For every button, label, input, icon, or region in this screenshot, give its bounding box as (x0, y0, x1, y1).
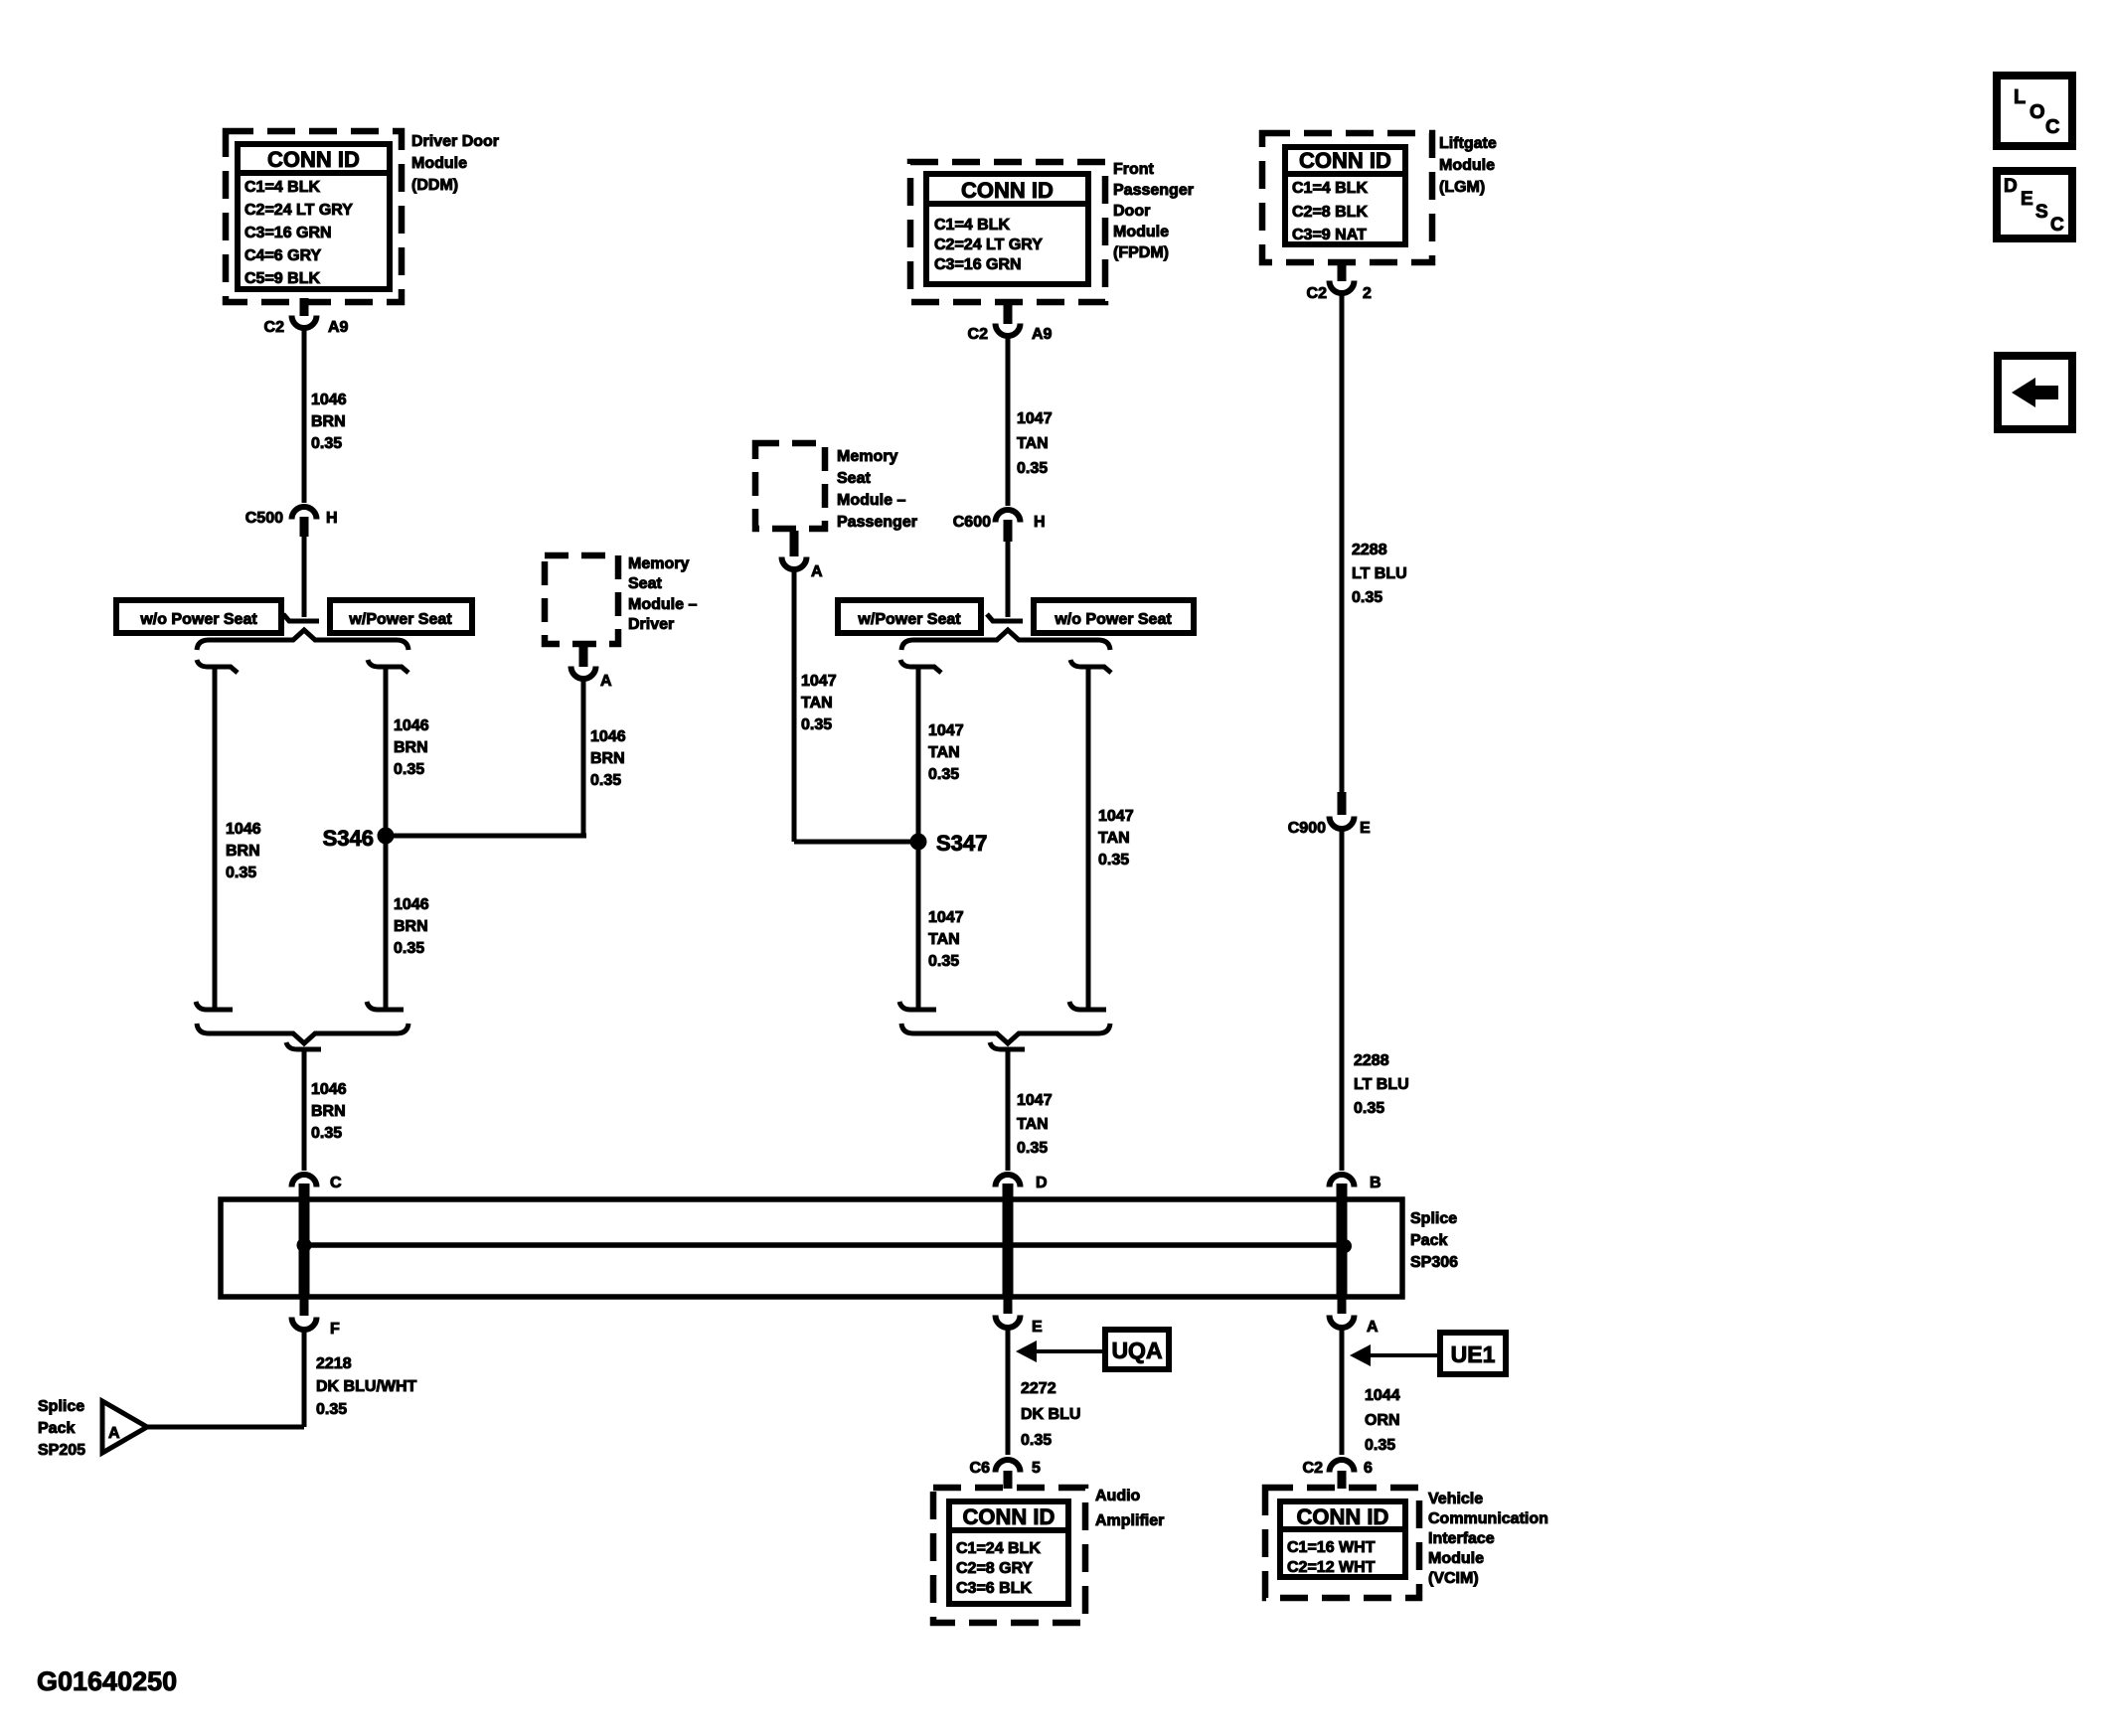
SP306 leg D-E (through box) (1003, 1184, 1014, 1297)
svg-text:BRN: BRN (590, 750, 625, 767)
module LGM: Liftgate Module dashed box with CONN ID table (1262, 133, 1432, 262)
svg-text:C: C (330, 1175, 342, 1191)
svg-text:Front: Front (1113, 161, 1155, 178)
svg-text:Splice: Splice (1410, 1210, 1457, 1227)
svg-text:Driver Door: Driver Door (411, 133, 499, 150)
label: 1047 TAN 0.35 (middle-left branch) (928, 722, 964, 783)
svg-text:BRN: BRN (394, 739, 428, 756)
label: wire 2272 DK BLU 0.35 (1021, 1380, 1080, 1449)
SP306 leg C-F (through box) (299, 1184, 310, 1297)
wire 1046 BRN 0.35 to splice pack C (302, 1049, 307, 1171)
label: wire 2218 DK BLU/WHT 0.35 (316, 1355, 417, 1418)
svg-text:S347: S347 (936, 831, 987, 856)
svg-text:0.35: 0.35 (1365, 1437, 1395, 1454)
svg-text:G01640250: G01640250 (37, 1666, 177, 1696)
svg-text:(VCIM): (VCIM) (1428, 1570, 1479, 1587)
branch w/o power seat: bracket + wire (left) (196, 660, 238, 1010)
svg-text:0.35: 0.35 (394, 940, 424, 957)
connector C6 pin 5 at audio amplifier (970, 1460, 1041, 1489)
svg-text:Seat: Seat (837, 470, 871, 487)
label: Audio Amplifier (1095, 1488, 1164, 1529)
svg-text:C1=4 BLK: C1=4 BLK (244, 179, 320, 196)
connector cavity F of SP306 (292, 1297, 341, 1338)
svg-text:w/o Power Seat: w/o Power Seat (139, 611, 257, 628)
label: 1046 BRN 0.35 (right branch, above S346) (394, 717, 429, 778)
svg-text:Communication: Communication (1428, 1510, 1548, 1527)
svg-text:BRN: BRN (394, 918, 428, 935)
svg-text:Module: Module (1439, 157, 1495, 174)
svg-text:LT BLU: LT BLU (1352, 565, 1407, 582)
svg-text:C2=12 WHT: C2=12 WHT (1287, 1559, 1376, 1576)
svg-text:1046: 1046 (311, 392, 347, 408)
svg-text:0.35: 0.35 (1352, 589, 1382, 606)
svg-text:H: H (1034, 514, 1046, 531)
svg-text:ORN: ORN (1365, 1412, 1400, 1429)
svg-text:0.35: 0.35 (590, 772, 621, 789)
svg-text:C2: C2 (264, 319, 285, 336)
label: 1046 BRN 0.35 (left branch) (226, 821, 261, 881)
wire from C600 to option split (middle) (1006, 542, 1011, 617)
connector C500 pin H (245, 507, 338, 537)
svg-text:1047: 1047 (928, 722, 964, 739)
svg-text:D: D (2004, 176, 2018, 197)
wire 2288 LT BLU 0.35 from LGM to C900 (1340, 294, 1345, 792)
svg-text:TAN: TAN (928, 931, 960, 948)
hook under brace (middle) (990, 1042, 1025, 1049)
wire 2288 LT BLU 0.35 from C900 to splice pack B (1340, 830, 1345, 1171)
svg-text:E: E (1032, 1319, 1043, 1336)
svg-text:TAN: TAN (1017, 1116, 1049, 1133)
splice pack SP205 triangle terminal A (102, 1401, 147, 1453)
svg-text:TAN: TAN (928, 744, 960, 761)
module: Memory Seat Module - Passenger (dashed) (755, 443, 825, 529)
svg-text:SP205: SP205 (38, 1442, 85, 1459)
svg-text:A: A (108, 1425, 120, 1442)
svg-text:C500: C500 (245, 510, 283, 527)
svg-text:1044: 1044 (1365, 1387, 1400, 1404)
option split hook (283, 614, 319, 621)
label: wire 1044 ORN 0.35 (1365, 1387, 1400, 1454)
wire 1047 TAN 0.35 from memory module A down to S347 (792, 570, 797, 842)
svg-text:DK BLU: DK BLU (1021, 1406, 1080, 1423)
connector A of memory seat module passenger (782, 531, 824, 580)
splice S346 (323, 826, 395, 851)
module: Audio Amplifier dashed box with CONN ID table (933, 1488, 1085, 1623)
svg-text:A9: A9 (1032, 326, 1053, 343)
svg-text:C3=16 GRN: C3=16 GRN (934, 256, 1022, 273)
svg-text:Module –: Module – (837, 492, 905, 509)
svg-text:H: H (326, 510, 338, 527)
svg-text:2272: 2272 (1021, 1380, 1056, 1397)
svg-text:A: A (1367, 1319, 1379, 1336)
svg-text:B: B (1370, 1175, 1381, 1191)
svg-text:C900: C900 (1288, 820, 1326, 837)
svg-text:E: E (1360, 820, 1371, 837)
legend box LOC (1997, 76, 2072, 146)
legend box DESC (1997, 171, 2072, 238)
svg-text:BRN: BRN (226, 843, 260, 860)
svg-text:0.35: 0.35 (1017, 460, 1048, 477)
svg-text:A9: A9 (328, 319, 349, 336)
junction dot at C leg (297, 1238, 312, 1253)
svg-text:C2: C2 (968, 326, 989, 343)
svg-text:C4=6 GRY: C4=6 GRY (244, 247, 322, 264)
label: wire 2288 LT BLU 0.35 (upper) (1352, 542, 1407, 606)
svg-text:1047: 1047 (801, 673, 837, 690)
RPO arrow UQA pointing at wire (1016, 1341, 1105, 1362)
svg-text:C2: C2 (1307, 285, 1328, 302)
label: wire 2288 LT BLU 0.35 (lower) (1354, 1052, 1409, 1117)
svg-text:1047: 1047 (1017, 1092, 1053, 1109)
svg-text:Liftgate: Liftgate (1439, 135, 1497, 152)
svg-text:w/o Power Seat: w/o Power Seat (1054, 611, 1172, 628)
brace joining branches back (left column bottom) (197, 1024, 408, 1043)
label: 1047 TAN 0.35 (to splice pack) (1017, 1092, 1053, 1157)
svg-text:Splice: Splice (38, 1398, 84, 1415)
svg-text:1046: 1046 (226, 821, 261, 838)
svg-text:D: D (1036, 1175, 1048, 1191)
svg-text:0.35: 0.35 (928, 766, 959, 783)
wire 1047 TAN 0.35 from FPDM to C600 (1006, 337, 1011, 506)
label: 1046 BRN 0.35 (to splice pack) (311, 1081, 347, 1142)
SP306 leg B-A (through box) (1337, 1184, 1348, 1297)
connector A of memory seat module driver (571, 646, 613, 690)
svg-text:2288: 2288 (1354, 1052, 1389, 1069)
connector C2 pin A9 at DDM (264, 298, 349, 336)
svg-text:Module –: Module – (628, 596, 697, 613)
svg-text:C6: C6 (970, 1460, 991, 1477)
label: wire 1046 BRN 0.35 (311, 392, 347, 452)
connector C600 pin H (953, 510, 1046, 542)
svg-text:0.35: 0.35 (311, 435, 342, 452)
label: Splice Pack SP306 (1410, 1210, 1458, 1271)
brace splitting wire into two branches (left column) (197, 630, 408, 650)
svg-text:UQA: UQA (1111, 1338, 1162, 1363)
svg-text:1046: 1046 (394, 717, 429, 734)
svg-text:2: 2 (1363, 285, 1372, 302)
svg-text:TAN: TAN (1017, 435, 1049, 452)
label: 1047 TAN 0.35 (middle-right branch) (1098, 808, 1134, 868)
label: Liftgate Module (LGM) (1439, 135, 1497, 196)
label: 1046 BRN 0.35 (below S346) (394, 896, 429, 957)
svg-text:C2: C2 (1303, 1460, 1324, 1477)
svg-text:Passenger: Passenger (837, 514, 917, 531)
connector cavity C of SP306 (292, 1175, 343, 1191)
label: Vehicle Communication Interface Module (VCIM) (1428, 1491, 1548, 1587)
svg-text:CONN ID: CONN ID (961, 178, 1054, 203)
svg-text:Driver: Driver (628, 616, 674, 633)
svg-text:A: A (811, 563, 823, 580)
svg-text:Module: Module (1113, 224, 1169, 240)
svg-text:6: 6 (1364, 1460, 1373, 1477)
svg-text:(FPDM): (FPDM) (1113, 244, 1169, 261)
module DDM: Driver Door Module dashed box with CONN ID table (226, 131, 402, 302)
svg-text:CONN ID: CONN ID (267, 147, 360, 172)
svg-text:Amplifier: Amplifier (1095, 1512, 1164, 1529)
svg-text:0.35: 0.35 (1354, 1100, 1384, 1117)
svg-text:2288: 2288 (1352, 542, 1387, 558)
label: Memory Seat Module - Driver (628, 555, 697, 633)
wire 1046 BRN 0.35 from memory module A down to S346 (581, 680, 586, 836)
svg-text:0.35: 0.35 (226, 865, 256, 881)
svg-text:SP306: SP306 (1410, 1254, 1458, 1271)
splice pack SP306 box (221, 1199, 1402, 1297)
svg-text:0.35: 0.35 (394, 761, 424, 778)
svg-text:C3=9 NAT: C3=9 NAT (1292, 227, 1367, 243)
svg-text:0.35: 0.35 (801, 716, 832, 733)
RPO arrow UE1 pointing at wire (1350, 1344, 1440, 1366)
svg-text:0.35: 0.35 (928, 953, 959, 970)
svg-text:Interface: Interface (1428, 1530, 1495, 1547)
label: Memory Seat Module - Passenger (837, 448, 917, 531)
svg-text:C5=9 BLK: C5=9 BLK (244, 270, 320, 287)
svg-text:BRN: BRN (311, 413, 346, 430)
svg-text:UE1: UE1 (1451, 1341, 1496, 1367)
svg-text:CONN ID: CONN ID (1299, 148, 1391, 173)
label: wire 1047 TAN 0.35 (1017, 410, 1053, 477)
svg-text:5: 5 (1032, 1460, 1041, 1477)
svg-text:1046: 1046 (311, 1081, 347, 1098)
svg-text:C3=6 BLK: C3=6 BLK (956, 1580, 1032, 1597)
svg-text:2218: 2218 (316, 1355, 352, 1372)
option box: w/o Power Seat (middle column) (1034, 600, 1194, 633)
svg-text:w/Power Seat: w/Power Seat (857, 611, 961, 628)
svg-text:1046: 1046 (590, 728, 626, 745)
branch w/o power seat: bracket + wire (middle-right) (1069, 660, 1111, 1010)
option box: w/o Power Seat (left column) (116, 600, 281, 633)
svg-text:CONN ID: CONN ID (1297, 1504, 1389, 1529)
svg-text:(DDM): (DDM) (411, 177, 458, 194)
connector cavity B of SP306 (1330, 1175, 1381, 1191)
label: 1047 TAN 0.35 (memory module wire) (801, 673, 837, 733)
connector C2 pin 6 at VCIM (1303, 1460, 1373, 1489)
svg-text:Seat: Seat (628, 575, 662, 592)
option split hook (middle) (987, 614, 1023, 621)
svg-text:Pack: Pack (1410, 1232, 1447, 1249)
svg-text:C3=16 GRN: C3=16 GRN (244, 225, 332, 241)
svg-text:1046: 1046 (394, 896, 429, 913)
brace splitting wire into two branches (middle column) (901, 630, 1110, 650)
module FPDM: Front Passenger Door Module dashed box with CONN ID table (910, 162, 1105, 302)
svg-text:TAN: TAN (1098, 830, 1130, 847)
label: Driver Door Module (DDM) (411, 133, 499, 194)
label: Front Passenger Door Module (FPDM) (1113, 161, 1194, 261)
wire 1044 ORN 0.35 from A to VCIM (1340, 1329, 1345, 1455)
svg-text:Module: Module (1428, 1550, 1484, 1567)
connector C900 pin E (1288, 792, 1371, 837)
svg-text:S346: S346 (323, 826, 374, 851)
svg-text:0.35: 0.35 (311, 1125, 342, 1142)
svg-text:O: O (2030, 101, 2045, 123)
svg-text:0.35: 0.35 (1021, 1432, 1052, 1449)
junction dot at B leg (1338, 1239, 1352, 1253)
svg-text:CONN ID: CONN ID (963, 1504, 1055, 1529)
svg-text:C: C (2050, 215, 2064, 236)
label: 1047 TAN 0.35 (below S347) (928, 909, 964, 970)
svg-text:C: C (2045, 116, 2059, 138)
svg-text:Pack: Pack (38, 1420, 75, 1437)
branch w/ power seat: bracket + wire (right) (367, 660, 408, 1010)
svg-text:0.35: 0.35 (1098, 852, 1129, 868)
label: Splice Pack SP205 (38, 1398, 85, 1459)
svg-text:A: A (600, 673, 612, 690)
RPO box UE1 (1440, 1333, 1506, 1374)
svg-text:1047: 1047 (1098, 808, 1134, 825)
svg-text:L: L (2014, 86, 2026, 108)
svg-text:Module: Module (411, 155, 467, 172)
connector C2 pin A9 at FPDM (968, 304, 1053, 343)
wire 2218 DK BLU/WHT 0.35 from F to SP205 (302, 1331, 307, 1427)
svg-text:E: E (2021, 189, 2033, 210)
svg-text:C2=8 BLK: C2=8 BLK (1292, 204, 1368, 221)
svg-text:1047: 1047 (1017, 410, 1053, 427)
wire 1047 TAN 0.35 to splice pack D (1006, 1049, 1011, 1171)
svg-text:TAN: TAN (801, 695, 833, 711)
splice S347 (910, 831, 988, 856)
branch w/ power seat: bracket + wire (middle-left) (899, 660, 941, 1010)
svg-text:1047: 1047 (928, 909, 964, 926)
svg-text:C2=24 LT GRY: C2=24 LT GRY (244, 202, 353, 219)
option box: w/Power Seat (left column) (330, 600, 472, 633)
RPO box UQA (1105, 1330, 1169, 1369)
svg-text:w/Power Seat: w/Power Seat (348, 611, 452, 628)
module: Memory Seat Module - Driver (dashed) (545, 555, 618, 644)
module VCIM dashed box with CONN ID table (1265, 1488, 1419, 1598)
connector cavity A of SP306 (1330, 1297, 1380, 1336)
SP306 internal bus bar (304, 1242, 1345, 1248)
svg-text:DK BLU/WHT: DK BLU/WHT (316, 1378, 417, 1395)
svg-text:C2=8 GRY: C2=8 GRY (956, 1560, 1034, 1577)
wire from C500 to option split (302, 537, 307, 617)
svg-text:BRN: BRN (311, 1103, 346, 1120)
svg-text:Passenger: Passenger (1113, 182, 1194, 199)
svg-text:C1=4 BLK: C1=4 BLK (934, 217, 1010, 234)
wire 2272 DK BLU 0.35 from E to audio amplifier (1006, 1329, 1011, 1455)
svg-text:Memory: Memory (837, 448, 897, 465)
svg-text:C1=16 WHT: C1=16 WHT (1287, 1539, 1376, 1556)
svg-text:Vehicle: Vehicle (1428, 1491, 1483, 1507)
svg-text:F: F (330, 1321, 340, 1338)
svg-text:S: S (2035, 202, 2048, 223)
svg-text:Door: Door (1113, 203, 1150, 220)
svg-text:C600: C600 (953, 514, 991, 531)
connector cavity D of SP306 (996, 1175, 1048, 1191)
connector cavity E of SP306 (996, 1297, 1044, 1336)
label: 1046 BRN 0.35 (memory module wire) (590, 728, 626, 789)
svg-text:Audio: Audio (1095, 1488, 1141, 1504)
svg-text:0.35: 0.35 (316, 1401, 347, 1418)
svg-text:(LGM): (LGM) (1439, 179, 1485, 196)
option box: w/Power Seat (middle column) (838, 600, 981, 633)
svg-text:C1=4 BLK: C1=4 BLK (1292, 180, 1368, 197)
hook under brace (286, 1042, 321, 1049)
connector C2 pin 2 at LGM (1307, 264, 1372, 302)
svg-text:C1=24 BLK: C1=24 BLK (956, 1540, 1041, 1557)
wire 1046 BRN 0.35 from DDM to C500 (302, 329, 307, 503)
svg-text:LT BLU: LT BLU (1354, 1076, 1409, 1093)
legend box back-arrow (1998, 356, 2072, 429)
svg-text:Memory: Memory (628, 555, 689, 572)
svg-text:C2=24 LT GRY: C2=24 LT GRY (934, 237, 1043, 253)
brace joining branches back (middle column bottom) (901, 1024, 1110, 1043)
svg-text:0.35: 0.35 (1017, 1140, 1048, 1157)
